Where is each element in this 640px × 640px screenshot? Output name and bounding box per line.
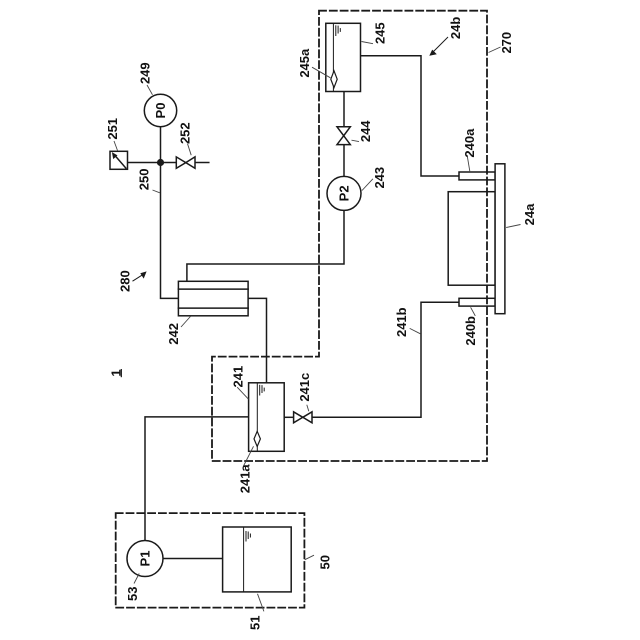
boundary 50 (dashed box) — [116, 513, 305, 608]
port 240a — [459, 172, 495, 180]
wire: gauge P0 stem down to node 250 junction — [160, 127, 162, 163]
valve 244 — [337, 127, 350, 145]
svg-text:243: 243 — [372, 167, 387, 189]
svg-text:50: 50 — [318, 555, 333, 569]
svg-text:P2: P2 — [337, 185, 352, 201]
svg-text:245a: 245a — [297, 48, 312, 78]
svg-text:242: 242 — [166, 323, 181, 345]
wire: pump P2 outlet down and left into heat exchanger 242 top — [187, 210, 344, 281]
leader 241a — [244, 446, 254, 466]
svg-text:280: 280 — [117, 270, 132, 292]
leader 240a — [467, 156, 470, 172]
wire: tank 241 right to valve 241c — [284, 416, 293, 418]
pump P2 (243) — [327, 176, 361, 210]
wire: regulator 251 to junction to valve 252 — [128, 162, 177, 164]
heat exchanger 242 — [178, 281, 248, 316]
svg-text:251: 251 — [105, 118, 120, 140]
wire: tank 241 left to pump P1 riser — [145, 417, 249, 541]
leader 53 — [134, 574, 139, 584]
pump P1 (53) — [127, 541, 163, 577]
svg-text:240b: 240b — [463, 316, 478, 346]
svg-text:250: 250 — [136, 169, 151, 191]
plate 24a — [495, 164, 505, 314]
leader 241 — [237, 387, 248, 399]
valve 252 — [176, 157, 195, 168]
leader 244 — [352, 140, 360, 141]
svg-text:24b: 24b — [448, 17, 463, 39]
leader 251 — [114, 141, 118, 151]
wire: pump P1 outlet to tank 51 — [163, 558, 223, 560]
svg-text:P1: P1 — [138, 551, 153, 567]
float 241a — [254, 431, 260, 446]
gauge P0 (249) — [144, 94, 176, 126]
leader 240b — [471, 307, 476, 316]
leader 50 — [305, 555, 314, 560]
leader 245 — [362, 42, 374, 44]
node: junction dot at 250 — [157, 159, 164, 166]
svg-text:241a: 241a — [238, 464, 253, 494]
leader 250 — [153, 190, 160, 193]
port 240b — [459, 298, 495, 306]
tank 241 — [249, 383, 285, 452]
leader 252 — [188, 144, 192, 156]
svg-text:241: 241 — [230, 366, 245, 388]
svg-text:24a: 24a — [522, 203, 537, 225]
float 245a — [331, 71, 337, 88]
svg-text:240a: 240a — [462, 128, 477, 158]
svg-text:51: 51 — [248, 616, 263, 630]
leader 241b — [410, 328, 421, 333]
boundary 270 (dashed L-shaped enclosure) — [212, 11, 487, 461]
leader 245a — [312, 67, 330, 78]
svg-text:270: 270 — [499, 32, 514, 54]
wire: pipe 24b from tank 245 right to port 240a — [361, 56, 460, 176]
leader 24a — [506, 225, 520, 228]
arrow 24b — [429, 37, 448, 56]
svg-text:244: 244 — [358, 120, 373, 142]
leader 241c — [307, 405, 309, 412]
svg-text:53: 53 — [125, 587, 140, 601]
leader 243 — [362, 179, 373, 191]
wire: pipe 250 from junction down into heat exchanger 242 left — [161, 163, 179, 299]
wire: tank 245 bottom to valve 244 — [343, 92, 345, 127]
leader 51 — [258, 594, 264, 612]
chamber body of 24a — [448, 192, 495, 286]
tank 51 — [223, 527, 292, 592]
leader 249 — [147, 85, 153, 95]
leader 270 — [489, 47, 501, 53]
arrow 280 — [133, 271, 147, 281]
svg-text:241b: 241b — [394, 307, 409, 337]
svg-text:249: 249 — [138, 62, 153, 84]
wire: pipe 241b from port 240b down to valve 241c — [312, 302, 459, 417]
leader 242 — [181, 317, 190, 328]
regulator 251 — [110, 151, 128, 169]
svg-text:252: 252 — [178, 122, 193, 144]
wire: valve 244 to pump P2 top — [343, 145, 345, 177]
svg-text:245: 245 — [373, 22, 388, 44]
wire: heat exchanger 242 right outlet down to tank 241 top — [248, 298, 266, 382]
wire: valve 252 outlet (vent) — [195, 162, 209, 164]
svg-text:241c: 241c — [297, 373, 312, 402]
leader lines — [114, 42, 521, 612]
valve 241c — [294, 412, 312, 423]
labels (rotated 90° CCW, patent style) — [105, 17, 537, 630]
tank 245 — [326, 23, 361, 91]
svg-text:P0: P0 — [153, 103, 168, 119]
